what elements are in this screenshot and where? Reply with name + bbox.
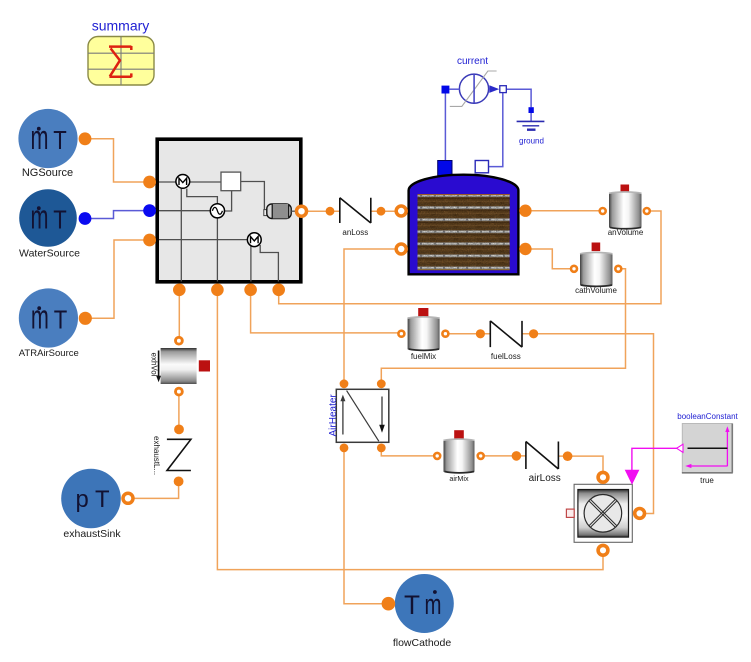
- junction dot exhaust loss top: [174, 425, 184, 435]
- reformer internal wire square to catalyst: [241, 182, 265, 211]
- port dot AirHeater bottom right: [377, 444, 386, 453]
- port ring cathVolume left: [571, 266, 577, 272]
- current source right pin: [500, 86, 507, 93]
- reformer internal wire NG line: [159, 181, 221, 183]
- reformer mixer sine: [210, 204, 224, 218]
- blower control input triangle: [625, 470, 640, 485]
- port ring stack cathode inlet: [396, 244, 406, 254]
- booleanConstant output port: [677, 444, 683, 452]
- fuel cell stack: [409, 161, 519, 275]
- wire anLoss right to stack anode inlet: [371, 210, 395, 212]
- svg-text:cathVolume: cathVolume: [575, 286, 617, 295]
- svg-text:fuelLoss: fuelLoss: [491, 352, 521, 361]
- junction dot fuelLoss right: [529, 329, 538, 338]
- junction dot anLoss right: [377, 207, 386, 216]
- fuelMix: [408, 308, 440, 361]
- current source: [442, 56, 507, 107]
- svg-text:anVolume: anVolume: [608, 228, 644, 237]
- svg-text:summary: summary: [92, 18, 150, 34]
- wire stack cathode inlet to AirHeater hot outlet: [344, 249, 399, 384]
- port ring reformer fuel outlet: [297, 206, 307, 216]
- wire reformer bottom port 2 to blower bottom port: [217, 290, 603, 570]
- booleanConstant block: [677, 412, 739, 485]
- junction dot exhaust loss bottom: [174, 477, 184, 487]
- summary block icon: [88, 37, 154, 86]
- port ring cathVolume right: [615, 266, 621, 272]
- svg-text:m: m: [31, 198, 49, 236]
- svg-text:T: T: [404, 590, 420, 620]
- junction dot airLoss right: [563, 451, 573, 461]
- stack white pin (cathode terminal): [475, 161, 488, 173]
- svg-text:WaterSource: WaterSource: [19, 248, 80, 260]
- source NGSource: [18, 109, 77, 179]
- port dot reformer bottom 1: [173, 284, 186, 297]
- reformer internal wire M1 down: [180, 189, 182, 282]
- port dot reformer air inlet: [143, 234, 156, 247]
- svg-text:m: m: [425, 589, 442, 621]
- svg-text:T: T: [54, 304, 68, 334]
- exhVol (horizontal cylinder): [149, 348, 210, 384]
- port dot AirHeater top left: [340, 379, 349, 388]
- wire reformer bottom port 1 to exhVol: [178, 290, 180, 337]
- current ramp glyph: [450, 71, 497, 106]
- port dot reformer bottom 3: [244, 284, 257, 297]
- wire cathVolume outlet to AirHeater hot inlet: [381, 269, 625, 384]
- wire anVolume outlet down and left to reformer bottom port 4: [279, 211, 661, 304]
- svg-text:ground: ground: [519, 137, 544, 146]
- wire stack anode outlet to anVolume: [528, 210, 600, 212]
- port ring blower right: [635, 509, 645, 519]
- wire current source left pin down to stack blue pin: [444, 94, 446, 161]
- svg-text:T: T: [53, 125, 67, 155]
- port dot stack cathode outlet: [519, 243, 531, 255]
- reformer internal wire M2 down: [250, 246, 252, 282]
- svg-text:m: m: [31, 119, 49, 157]
- port dot AirHeater bottom left: [340, 444, 349, 453]
- wire exhVol to exhaust loss: [178, 393, 180, 426]
- reformer internal wire sine to square bottom: [224, 191, 231, 211]
- port dot AirHeater top right: [377, 379, 386, 388]
- wire NGSource to reformer: [91, 139, 145, 182]
- wire airLoss right to blower top port: [559, 456, 603, 471]
- svg-text:T: T: [53, 204, 67, 234]
- svg-text:exhaustL...: exhaustL...: [152, 436, 161, 475]
- reformer reactor square: [221, 172, 241, 191]
- port ring fuelMix left: [398, 331, 404, 337]
- anVolume: [608, 185, 644, 237]
- port ring stack anode inlet: [396, 206, 406, 216]
- wire ATRAirSource to reformer: [92, 240, 146, 318]
- port dot WaterSource (blue): [79, 212, 92, 225]
- port dot NGSource: [79, 132, 92, 145]
- svg-text:current: current: [457, 56, 488, 67]
- junction dot anLoss left: [326, 207, 335, 216]
- svg-text:booleanConstant: booleanConstant: [677, 412, 738, 421]
- port ring blower top: [598, 472, 608, 482]
- exhVol rotated label and arrow: [158, 351, 160, 378]
- port dot reformer water inlet (blue): [143, 204, 156, 217]
- ground: [517, 107, 545, 145]
- port dot reformer bottom 4: [272, 284, 285, 297]
- port dot flowCathode: [382, 597, 396, 611]
- stack cell package: [418, 194, 510, 270]
- svg-text:NGSource: NGSource: [22, 167, 73, 179]
- svg-text:p T: p T: [76, 486, 110, 513]
- svg-text:anLoss: anLoss: [342, 228, 368, 237]
- svg-text:flowCathode: flowCathode: [393, 637, 452, 649]
- port dot ATRAirSource: [79, 312, 92, 325]
- svg-text:exhaustSink: exhaustSink: [63, 528, 121, 540]
- airMix: [444, 430, 475, 483]
- cathVolume: [575, 243, 617, 296]
- reformer mixer M2: [247, 233, 261, 247]
- port ring airMix right: [478, 453, 484, 459]
- port ring airMix left: [434, 453, 440, 459]
- source flowCathode: [393, 574, 454, 649]
- wire fuelLoss right to blower right port: [523, 334, 654, 514]
- wire fuelMix to fuelLoss: [448, 333, 490, 335]
- wire AirHeater cold outlet to airMix: [381, 448, 434, 456]
- port ring anVolume right: [644, 208, 650, 214]
- svg-text:airLoss: airLoss: [529, 473, 561, 484]
- anLoss resistance symbol: [340, 198, 371, 237]
- fuelLoss resistance symbol: [490, 321, 522, 361]
- svg-text:AirHeater: AirHeater: [328, 394, 339, 437]
- wire reformer bottom port 3 to fuelMix: [251, 290, 399, 333]
- port ring fuelMix right: [442, 331, 448, 337]
- blower / cathode compressor: [566, 470, 639, 543]
- wire AirHeater cold inlet down to flowCathode: [344, 448, 384, 604]
- reformer internal wire air line: [159, 239, 248, 241]
- reformer internal wire M2 right-down: [260, 245, 278, 282]
- svg-text:fuelMix: fuelMix: [411, 352, 436, 361]
- stack body: [409, 175, 519, 275]
- airLoss resistance symbol: [526, 442, 561, 484]
- svg-text:true: true: [700, 476, 714, 485]
- reformer catalyst bed: [264, 210, 269, 216]
- svg-text:m: m: [31, 298, 49, 336]
- wire booleanConstant to blower control input (magenta): [632, 448, 677, 470]
- port ring blower bottom: [598, 545, 608, 555]
- port ring exhVol bottom: [176, 388, 183, 395]
- junction dot fuelLoss left: [476, 329, 485, 338]
- wire reformer outlet to anLoss left: [308, 210, 340, 212]
- junction dot airLoss left: [512, 451, 522, 461]
- wire exhaust loss to exhaustSink: [131, 484, 179, 498]
- current source circle: [459, 74, 488, 103]
- wire airMix to airLoss: [484, 455, 526, 457]
- port ring anVolume left: [600, 208, 606, 214]
- svg-text:exhVol: exhVol: [149, 353, 158, 377]
- port dot reformer bottom 2: [211, 284, 224, 297]
- stack blue pin (anode terminal): [438, 161, 452, 176]
- source ATRAirSource: [19, 288, 79, 358]
- reformer internal wire M1 to sine mixer: [187, 189, 218, 205]
- AirHeater heat exchanger: [328, 389, 389, 442]
- current source left pin: [442, 86, 450, 94]
- exhaust loss resistance symbol (rotated): [152, 436, 191, 475]
- wire stack cathode outlet to cathVolume: [528, 249, 572, 269]
- port dot reformer NG inlet: [143, 176, 156, 189]
- reformer internal wire sine down: [216, 218, 218, 282]
- source WaterSource: [19, 189, 80, 259]
- wire current source right pin to stack white pin: [489, 93, 503, 167]
- port dot stack anode outlet: [519, 205, 531, 217]
- reformer internal wire water line: [159, 210, 211, 212]
- blower shaft stub: [566, 509, 574, 517]
- wire WaterSource to reformer (blue): [91, 211, 145, 219]
- wire current source to ground: [506, 89, 531, 121]
- port ring exhaustSink: [123, 493, 133, 503]
- reformer mixer M1: [176, 175, 190, 189]
- current source output arrow: [489, 85, 499, 93]
- svg-text:airMix: airMix: [449, 474, 469, 483]
- svg-text:ATRAirSource: ATRAirSource: [19, 348, 79, 359]
- reformer block U1: [157, 139, 301, 282]
- sink exhaustSink: [61, 469, 121, 540]
- port ring exhVol top: [176, 337, 183, 344]
